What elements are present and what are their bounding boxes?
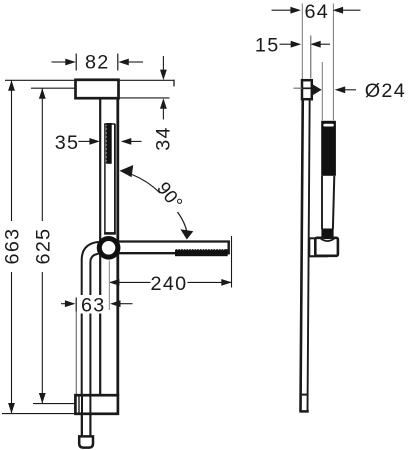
dimension 240 left arrow [109,279,120,286]
90 deg leader bottom arrow [180,229,193,239]
wall bar top bracket [76,80,119,98]
dimension 35 left line+arrow [78,140,90,142]
rail knurled strip [106,123,111,164]
rail slot right edge [114,124,116,234]
extension line 625 top reference (y=88.2) [31,87,75,89]
svg-text:63: 63 [81,294,106,316]
rail slot top edge [104,123,115,125]
side shower head slot [323,124,334,127]
svg-text:35: 35 [55,132,80,154]
svg-text:625: 625 [33,228,55,265]
dimension 15 right extension line [310,36,312,79]
svg-text:15: 15 [255,34,280,56]
svg-text:Ø24: Ø24 [365,80,406,102]
side shower handle left edge [321,176,323,229]
hand shower handle bottom edge [118,252,230,254]
holder cradle curve [321,239,335,242]
dimension 663 line [11,80,13,221]
svg-text:663: 663 [2,228,24,265]
dimension 15 right arrow+line [310,41,321,48]
240 extension line at handle end [231,236,233,288]
dimension 82 left line+arrow [52,61,67,63]
dimension 625 line [41,88,43,221]
dimension 63 left arrow [65,300,76,307]
dimension 63 left extension tick + line to bottom bracket [75,298,77,312]
side bracket wall dash [294,87,303,89]
slider ring [99,239,118,258]
dimension d24 left extension line [321,62,323,120]
dimension 663 bottom arrow [8,403,15,414]
bottom bracket [75,395,118,414]
side bracket mid line [302,87,312,89]
dimension 15 left line+arrow [280,43,292,45]
dimension 625 top arrow [39,88,46,99]
holder arm [309,238,316,256]
dimension 82 right line+arrow [129,61,144,63]
side shower head [321,121,336,176]
90 deg leader left arrow [120,165,134,177]
slider centre extension line (grey) [108,261,110,311]
hose outer elbow [82,242,99,436]
side bar left edge (slight lean) [301,81,303,411]
dimension 35 right line+arrow [131,140,142,142]
side bar bottom edge [299,410,309,413]
dimension 240 line [110,281,151,283]
dimension 63 text halo [80,295,107,314]
hand shower handle end cap [227,241,229,255]
hose end fitting [79,436,93,447]
side shower handle right edge [333,176,334,229]
handle thread band [175,250,228,256]
svg-text:240: 240 [151,273,188,295]
extension line bracket bottom right (y=97.9) [119,97,170,99]
extension line 663 bottom reference (y=413.6) [2,413,91,415]
hose through bracket (redraw over bracket fill) [81,397,83,437]
dimension 663 top arrow [8,80,15,91]
90 deg leader arc upper [132,175,160,194]
side bar right edge [308,81,310,411]
hose inner elbow [90,254,98,436]
dimension 63 right arrow [110,300,121,307]
extension line top (663 / 34 reference, y=80.3) [5,79,174,81]
dimension d24 big right-pointing arrow [312,84,322,96]
dimension 240 right arrow [221,279,232,286]
dimension 625 bottom arrow [39,393,46,404]
side top bracket [302,80,312,99]
side shower handle cap [321,229,333,240]
side bar bottom divider [301,394,308,396]
hand shower handle top edge [118,240,230,242]
bottom bracket inner line [78,397,80,414]
dimension 64 / d24 extension line right (grey) [332,4,334,121]
extension line 625 bottom reference (y=403.6) [33,403,77,405]
rail slot bottom edge [104,232,116,235]
dimension 64 right line+arrow [343,9,361,11]
dimension 34 lower arrow+line [160,98,167,109]
svg-text:34: 34 [153,126,175,151]
bar left edge [99,98,101,396]
rail slot left edge [104,124,106,234]
dimension 64 left line+arrow [272,9,292,11]
dimension 82 ticks [75,54,77,71]
svg-text:82: 82 [85,52,110,74]
dimension 64 extension line left (grey) [301,4,303,80]
90 deg leader arc lower [178,212,188,233]
side shower cap redraw over holder [322,231,333,239]
dimension 34 upper line+arrow [162,56,164,70]
holder lower lip [309,255,328,257]
svg-text:64: 64 [304,1,329,23]
dimension 63 tails [61,303,66,305]
dimension d24 left-pointing arrow+tail [335,86,346,93]
holder body [315,238,338,256]
dimension 34 tick [173,80,175,87]
bar right edge [116,98,119,396]
